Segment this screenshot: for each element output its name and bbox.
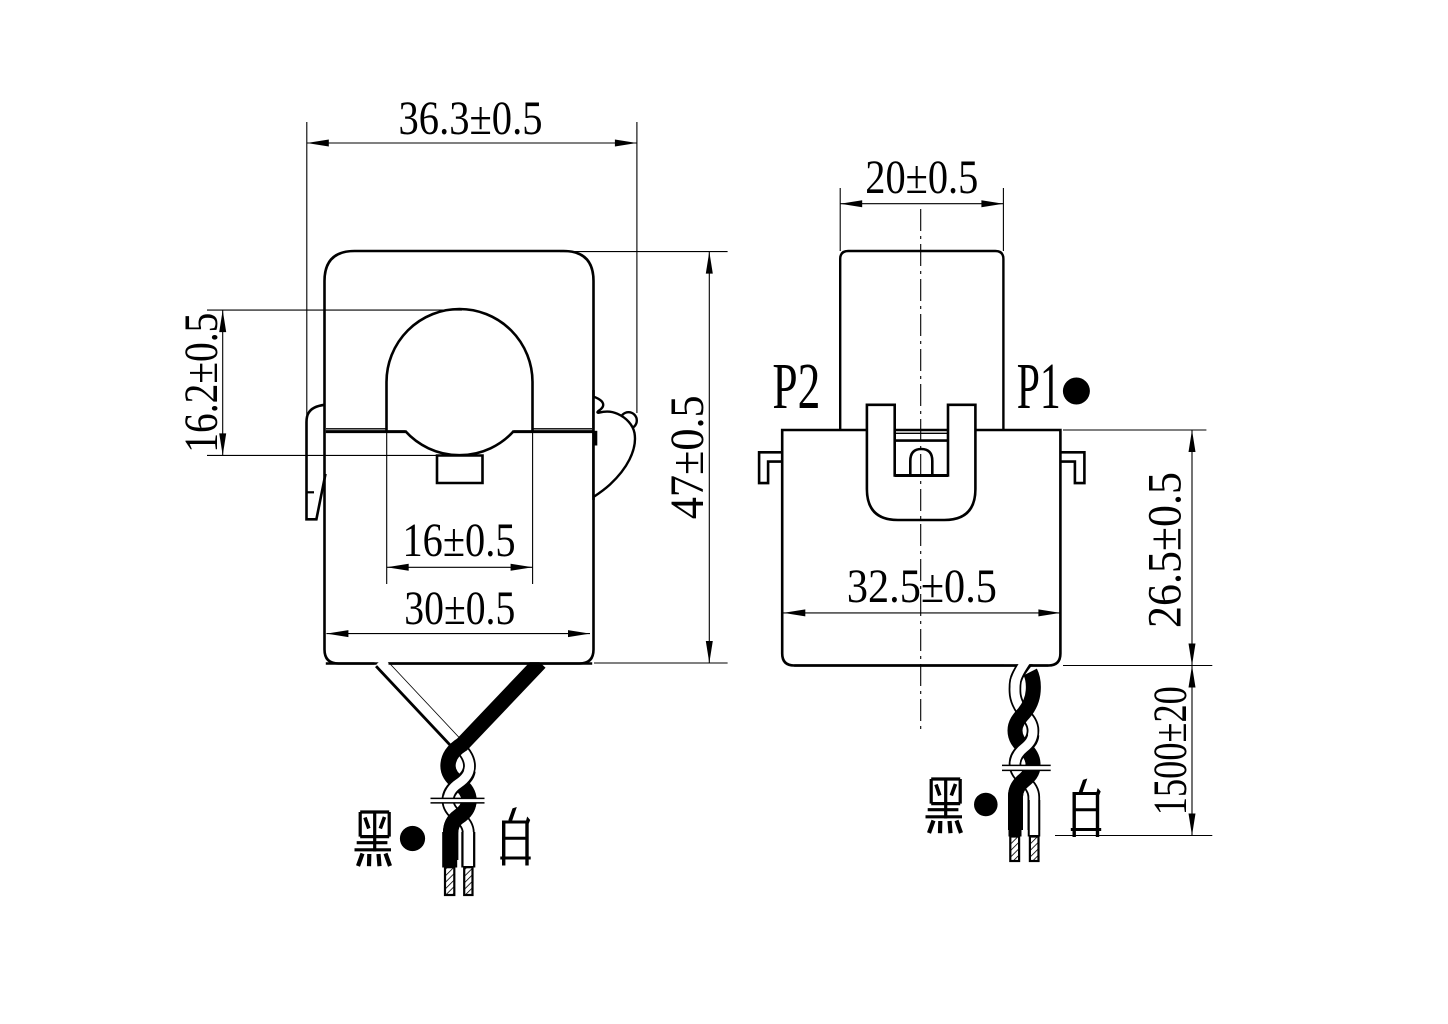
svg-text:36.3±0.5: 36.3±0.5 (399, 92, 543, 145)
svg-text:30±0.5: 30±0.5 (404, 582, 515, 635)
side white strand entry over black tip (1015, 657, 1029, 692)
P1 dot (1063, 378, 1090, 405)
side left bracket (759, 452, 782, 483)
dimension 1500±20 (1055, 666, 1212, 836)
label hei (black) side (926, 779, 963, 833)
dimension 32.5±0.5 (783, 560, 1060, 616)
front view white wire leg (380, 661, 456, 744)
hinge small knob (620, 412, 637, 429)
front wire end hatched white (464, 867, 472, 895)
front wire end hatched black (445, 867, 454, 895)
dimension 16.2±0.5 (175, 310, 462, 455)
side right bracket (1061, 452, 1085, 483)
dimension 20±0.5 (840, 151, 1003, 251)
center dash-dot line (920, 209, 922, 730)
front body right edge over hinge (592, 390, 595, 500)
label bai (white) side (1071, 779, 1101, 838)
front view body (325, 251, 594, 664)
svg-text:16.2±0.5: 16.2±0.5 (175, 313, 228, 453)
front break mark (432, 798, 483, 803)
side bottom black wire (1009, 800, 1022, 837)
front view window arch (387, 309, 533, 431)
core split thin line (326, 428, 592, 430)
hinge pin bar (593, 431, 597, 446)
svg-text:1500±20: 1500±20 (1144, 686, 1197, 815)
front black strand exit over crossing 3 (451, 802, 469, 860)
dimension 16±0.5 (387, 432, 533, 584)
dot bullet front (400, 826, 425, 851)
side twisted pair black strand (1015, 672, 1033, 830)
side wire end hatched black (1010, 837, 1019, 862)
side view U clip outer (867, 405, 976, 520)
side break mark (1004, 765, 1050, 770)
hinge lobe (594, 397, 635, 497)
front twisted pair white strand (448, 744, 470, 861)
svg-text:32.5±0.5: 32.5±0.5 (847, 560, 997, 613)
side view body (782, 430, 1060, 666)
dimension 47±0.5 (560, 252, 728, 663)
left latch (307, 405, 326, 520)
bottom tab (437, 456, 483, 484)
dimension 36.3±0.5 (307, 92, 637, 415)
front wire overflow mask above body bottom (360, 648, 560, 662)
side wire overflow mask above body bottom (1004, 640, 1048, 664)
svg-text:26.5±0.5: 26.5±0.5 (1139, 472, 1192, 628)
side twisted pair white strand (1015, 657, 1034, 830)
label bai (white) front (500, 807, 530, 866)
side view flap (840, 251, 1003, 431)
side black strand exit over crossing 3 (1016, 766, 1034, 820)
core split thick line (326, 430, 593, 433)
dimension 30±0.5 (326, 582, 590, 637)
front view core lower arc (405, 431, 514, 455)
svg-text:16±0.5: 16±0.5 (403, 514, 516, 567)
svg-text:P1: P1 (1017, 350, 1061, 423)
latch step line (307, 491, 315, 493)
label hei (black) front (355, 812, 392, 866)
U clip dome (910, 449, 932, 475)
svg-text:P2: P2 (772, 350, 820, 423)
side bottom white wire (1028, 800, 1041, 837)
front view black wire leg and black strand (448, 663, 540, 861)
svg-text:20±0.5: 20±0.5 (865, 151, 978, 204)
front bottom black wire (442, 832, 457, 868)
dimension 26.5±0.5 (1063, 430, 1212, 666)
U clip top lines (895, 432, 948, 434)
dot bullet side (974, 793, 998, 817)
U clip inner bottom thick (895, 474, 948, 477)
svg-text:47±0.5: 47±0.5 (661, 395, 714, 519)
front bottom white wire (461, 832, 475, 868)
front white strand over crossing 2 (448, 767, 469, 801)
side white strand over crossing 2 (1015, 732, 1033, 765)
side wire end hatched white (1030, 837, 1039, 862)
